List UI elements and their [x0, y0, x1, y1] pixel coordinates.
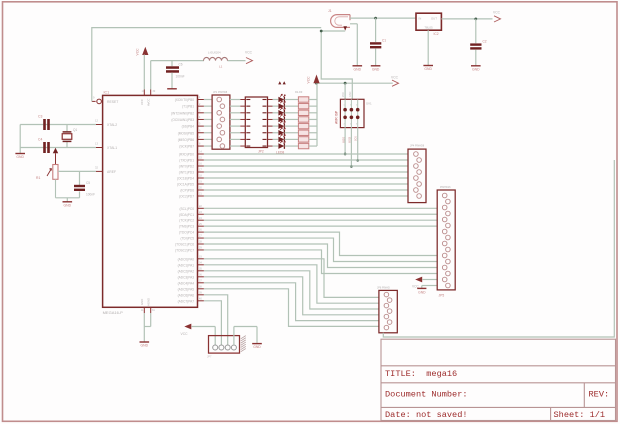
svg-text:GND: GND — [140, 299, 144, 305]
svg-text:(OC1A)PD5: (OC1A)PD5 — [177, 183, 194, 187]
svg-text:(SCL)PC0: (SCL)PC0 — [179, 207, 194, 211]
svg-text:GND: GND — [372, 67, 380, 71]
wire jack sleeve to GND — [350, 24, 357, 66]
wire RESET net to top and power jack — [92, 28, 353, 102]
IC1 pin AREF — [95, 166, 116, 174]
connector JP6 pin header 8 — [377, 287, 397, 333]
supply VCC arrow top right — [493, 11, 501, 23]
svg-text:(INT2/AIN0)PB2: (INT2/AIN0)PB2 — [171, 111, 194, 115]
svg-text:C3: C3 — [38, 115, 42, 119]
svg-text:R1: R1 — [36, 176, 40, 180]
svg-text:(OC0/AIN1)PB3: (OC0/AIN1)PB3 — [171, 118, 194, 122]
svg-text:JP4 PINHD8: JP4 PINHD8 — [410, 145, 425, 148]
svg-text:VCC: VCC — [245, 51, 253, 55]
svg-text:XTAL2: XTAL2 — [107, 123, 117, 127]
svg-text:1: 1 — [344, 105, 345, 107]
capacitor C2 — [470, 19, 487, 66]
ground IC1 GND symbol — [140, 342, 150, 348]
IC1 pin XTAL1 — [95, 142, 117, 150]
connector JP7 serial header — [207, 336, 246, 359]
svg-text:(MOSI)PB5: (MOSI)PB5 — [178, 131, 195, 135]
svg-text:(SDA)PC1: (SDA)PC1 — [179, 213, 194, 217]
svg-text:VCC: VCC — [307, 76, 311, 84]
svg-text:TITLE: mega16: TITLE: mega16 — [385, 369, 457, 379]
op IC1 ATMEGA16 body — [103, 91, 198, 315]
wire JP1 to JP2 — [230, 100, 240, 147]
tiny arrows above LED column — [278, 81, 286, 84]
svg-text:C4: C4 — [38, 138, 42, 142]
supply VCC arrow right of L1 — [245, 51, 253, 64]
svg-text:(TOSC2)PC7: (TOSC2)PC7 — [175, 248, 194, 252]
wire PC4-PC7 staircase to JP5 — [204, 232, 437, 273]
svg-text:(OC2)PD7: (OC2)PD7 — [179, 195, 194, 199]
wire AREF net — [56, 171, 97, 197]
IC1 pin RESET with inverting bubble — [92, 96, 119, 104]
svg-text:(TDO)PC4: (TDO)PC4 — [179, 231, 194, 235]
svg-text:(TOSC1)PC6: (TOSC1)PC6 — [175, 243, 194, 247]
connector JP1 pin header — [212, 91, 230, 149]
svg-text:OUT: OUT — [431, 17, 437, 21]
regulator IC2 78L05 — [416, 13, 441, 36]
wire VCC rail y83 — [315, 82, 393, 85]
wire regulator VOUT to VCC — [441, 18, 492, 21]
svg-text:AGND: AGND — [147, 298, 151, 306]
ground crystal GND — [15, 150, 25, 160]
ground below C6 — [167, 73, 177, 89]
svg-text:VCC: VCC — [342, 92, 345, 97]
IC1 right pins PB0-PB7 — [171, 96, 204, 148]
svg-text:IC2: IC2 — [434, 32, 439, 36]
svg-text:GND: GND — [64, 203, 72, 207]
svg-text:REV:: REV: — [589, 389, 610, 399]
svg-text:RESET: RESET — [107, 100, 118, 104]
svg-text:(ADC5)PA5: (ADC5)PA5 — [178, 287, 195, 291]
svg-text:GND: GND — [349, 91, 352, 97]
svg-text:VCC: VCC — [493, 11, 501, 15]
crystal Q1 — [62, 128, 77, 141]
svg-text:(SS)PB4: (SS)PB4 — [182, 125, 195, 129]
svg-text:(TCK)PC2: (TCK)PC2 — [179, 219, 194, 223]
svg-text:AVCC: AVCC — [147, 98, 151, 106]
svg-text:GND: GND — [418, 291, 426, 295]
svg-text:AVR ISP: AVR ISP — [334, 110, 338, 124]
svg-text:VCC: VCC — [181, 332, 189, 336]
connector JP4 pin header — [408, 145, 426, 203]
ground jack GND — [353, 66, 363, 72]
wire PC0-PC3 to JP5 — [204, 208, 437, 226]
IC1 bottom pins GND AGND — [140, 298, 155, 313]
wire LED resistor bus to VCC — [316, 83, 318, 146]
svg-text:(TDI)PC5: (TDI)PC5 — [181, 237, 195, 241]
wire PD0-PD7 to JP4 — [204, 154, 408, 196]
IC1 right pins PA0-PA7 — [178, 255, 204, 303]
svg-text:(INT0)PD2: (INT0)PD2 — [179, 165, 194, 169]
supply VCC arrow right of ISP — [391, 76, 399, 87]
svg-text:3: 3 — [350, 105, 351, 107]
ground C2 GND — [471, 66, 481, 72]
svg-text:IC1: IC1 — [104, 91, 110, 95]
svg-text:2: 2 — [344, 124, 345, 126]
wire PB0-PB7 to JP1 — [204, 100, 212, 147]
svg-text:GND: GND — [472, 67, 480, 71]
svg-text:JP1 PINHD8: JP1 PINHD8 — [213, 91, 228, 94]
svg-text:GND: GND — [253, 345, 261, 349]
svg-text:(TMS)PC3: (TMS)PC3 — [179, 225, 194, 229]
resistor R1 trimmer — [36, 165, 58, 181]
svg-text:JP6 PINHD: JP6 PINHD — [377, 287, 390, 290]
svg-text:MISO: MISO — [342, 137, 345, 143]
connector SV1 AVR ISP — [334, 99, 372, 127]
svg-text:L-EU0204: L-EU0204 — [208, 51, 221, 55]
svg-text:PINHD16: PINHD16 — [440, 186, 451, 189]
wire AVCC net to L1 — [151, 61, 246, 90]
svg-text:Q1: Q1 — [73, 128, 77, 132]
svg-text:MOSI: MOSI — [349, 137, 352, 143]
resistors R2-R9 array — [295, 91, 317, 149]
wire XTAL2 net — [20, 125, 96, 148]
connector JP2 socket — [240, 97, 272, 154]
capacitor C6 100nF — [166, 63, 185, 79]
ground below C5 — [63, 198, 73, 208]
vcc arrow on XTAL1 R1 top — [53, 148, 58, 165]
wire XTAL1 net — [20, 142, 96, 150]
connector JP5 pin header 16 — [437, 186, 455, 298]
svg-text:GND: GND — [16, 155, 24, 159]
svg-text:SV1: SV1 — [366, 102, 372, 106]
svg-text:AREF: AREF — [107, 170, 116, 174]
svg-text:6: 6 — [356, 124, 357, 126]
wire ISP MISO MOSI SCK drops — [342, 128, 359, 168]
capacitor C4 — [38, 138, 50, 154]
svg-text:GND: GND — [354, 67, 362, 71]
svg-text:VCC: VCC — [136, 48, 140, 56]
supply VCC arrow to JP5 — [412, 277, 437, 289]
svg-text:5: 5 — [356, 105, 357, 107]
svg-text:(ADC4)PA4: (ADC4)PA4 — [178, 281, 195, 285]
svg-text:100nF: 100nF — [176, 75, 185, 79]
svg-text:4: 4 — [350, 124, 351, 126]
capacitor C5 100nF — [74, 181, 95, 197]
IC1 top pins VCC AVCC — [140, 90, 156, 107]
svg-text:(ADC1)PA1: (ADC1)PA1 — [178, 263, 195, 267]
wire PA6 PA7 to serial header — [204, 295, 228, 345]
IC1 pin XTAL2 — [95, 119, 117, 127]
svg-text:JP2: JP2 — [258, 150, 264, 154]
supply VCC up arrow at LED bus — [307, 75, 320, 84]
svg-text:MEGA16-P: MEGA16-P — [103, 310, 124, 315]
svg-text:XTAL1: XTAL1 — [107, 146, 117, 150]
wire ISP pin risers — [342, 83, 352, 99]
svg-text:(ADC0)PA0: (ADC0)PA0 — [178, 257, 195, 261]
svg-text:(XCK/T0)PB0: (XCK/T0)PB0 — [175, 98, 195, 102]
svg-text:(ADC7)PA7: (ADC7)PA7 — [178, 299, 195, 303]
supply VCC arrow at serial header — [181, 324, 216, 345]
svg-text:GND: GND — [141, 344, 149, 348]
svg-text:R2-R9: R2-R9 — [295, 91, 303, 94]
svg-text:VCC: VCC — [391, 76, 399, 80]
svg-text:(INT1)PD3: (INT1)PD3 — [179, 171, 194, 175]
supply VCC arrow above IC — [136, 47, 149, 90]
svg-text:J1: J1 — [328, 9, 332, 13]
svg-text:JP7: JP7 — [207, 355, 212, 359]
svg-text:100nF: 100nF — [86, 193, 95, 197]
ground serial header GND — [252, 344, 262, 350]
svg-text:(T1)PB1: (T1)PB1 — [182, 105, 194, 109]
svg-text:(ADC6)PA6: (ADC6)PA6 — [178, 293, 195, 297]
svg-text:(ADC2)PA2: (ADC2)PA2 — [178, 269, 195, 273]
svg-text:C6: C6 — [179, 63, 183, 67]
svg-text:Document Number:: Document Number: — [385, 389, 468, 399]
connector J1 power jack — [328, 9, 350, 31]
svg-text:VCC: VCC — [140, 99, 144, 105]
svg-text:(OC1B)PD4: (OC1B)PD4 — [177, 177, 194, 181]
svg-text:Date: not saved!: Date: not saved! — [385, 410, 468, 420]
capacitor C1 — [370, 18, 386, 65]
svg-text:C2: C2 — [483, 40, 487, 44]
svg-text:(TXD)PD1: (TXD)PD1 — [179, 159, 194, 163]
svg-text:C5: C5 — [86, 181, 90, 185]
svg-text:(RXD)PD0: (RXD)PD0 — [179, 153, 194, 157]
ground regulator GND — [423, 30, 433, 71]
title block — [381, 339, 616, 420]
IC1 right pins PD0-PD7 — [177, 151, 204, 199]
svg-text:(SCK)PB7: (SCK)PB7 — [179, 145, 194, 149]
svg-text:Sheet: 1/1: Sheet: 1/1 — [554, 410, 606, 420]
svg-text:SCK: SCK — [355, 136, 358, 141]
wire jack to regulator VIN — [350, 17, 416, 20]
svg-text:JP5: JP5 — [439, 294, 445, 298]
wire PA0-PA5 staircase to JP6 — [204, 259, 379, 327]
svg-text:IN: IN — [419, 17, 422, 21]
svg-text:GND: GND — [424, 67, 432, 71]
svg-text:C1: C1 — [382, 39, 386, 43]
svg-text:(MISO)PB6: (MISO)PB6 — [178, 138, 195, 142]
inductor L1 — [204, 51, 228, 69]
svg-text:(ADC3)PA3: (ADC3)PA3 — [178, 275, 195, 279]
diodes LED1-LED8 column — [273, 94, 299, 154]
wire JP6 ground run along bottom — [383, 160, 614, 337]
wire serial header pin4 to GND — [234, 327, 257, 346]
ground at JP5 — [417, 286, 437, 295]
svg-text:78L05: 78L05 — [424, 26, 433, 30]
ground C1 GND — [371, 66, 381, 72]
svg-text:(ICP)PD6: (ICP)PD6 — [180, 189, 194, 193]
wire IC1 GND AGND to ground — [144, 313, 150, 342]
capacitor C3 — [38, 115, 50, 131]
IC1 right pins PC0-PC7 — [175, 205, 204, 253]
svg-text:L1: L1 — [219, 65, 223, 69]
